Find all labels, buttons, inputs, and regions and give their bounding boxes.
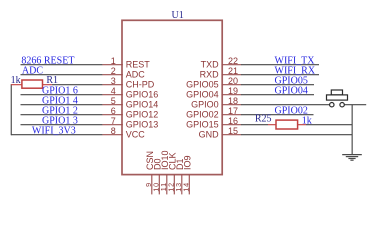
wire net WIFI_3V3: [11, 134, 102, 136]
resistor R25 leads: [268, 124, 306, 126]
pin 3 stub: [102, 84, 123, 86]
svg-text:22: 22: [228, 56, 238, 66]
svg-text:GPIO15: GPIO15: [186, 120, 219, 130]
svg-text:6: 6: [111, 106, 116, 116]
svg-text:18: 18: [228, 96, 238, 106]
pin 1 stub: [102, 64, 123, 66]
wire net GPIO1 3: [21, 124, 103, 126]
pin 14 stub: [188, 175, 190, 195]
pin 4 stub: [102, 94, 123, 96]
svg-text:17: 17: [228, 106, 238, 116]
ground: [342, 155, 362, 161]
svg-text:R1: R1: [46, 75, 58, 86]
svg-text:7: 7: [111, 116, 116, 126]
svg-text:3: 3: [111, 76, 116, 86]
IC U1 body: [122, 20, 222, 174]
wire CH-PD to R1: [52, 84, 103, 86]
wire net ADC: [21, 74, 103, 76]
wire net GPIO1 4: [21, 104, 103, 106]
svg-text:RXD: RXD: [200, 70, 220, 80]
wire GPIO15 to R25: [241, 124, 268, 126]
resistor R1 leads: [11, 84, 52, 86]
wire net WIFI_TX: [241, 64, 319, 66]
svg-text:GPIO16: GPIO16: [126, 90, 159, 100]
pin 20 stub: [222, 84, 242, 86]
push button S1 plunger: [331, 90, 342, 95]
svg-text:GPIO02: GPIO02: [186, 110, 219, 120]
svg-text:CH-PD: CH-PD: [126, 80, 155, 90]
wire R25 to ground line: [306, 124, 352, 126]
svg-text:GPIO05: GPIO05: [186, 80, 219, 90]
pin 21 stub: [222, 74, 242, 76]
svg-text:1k: 1k: [11, 75, 21, 86]
pin 13 stub: [181, 175, 183, 195]
svg-text:ADC: ADC: [126, 70, 146, 80]
svg-text:R25: R25: [255, 113, 272, 124]
push button S1 right contact: [340, 103, 344, 107]
pin 12 stub: [173, 175, 175, 195]
svg-text:REST: REST: [126, 60, 151, 70]
pin 15 stub: [222, 134, 242, 136]
wire button to ground node: [344, 104, 366, 106]
wire ground vertical: [351, 105, 353, 155]
pin 16 stub: [222, 124, 242, 126]
pin 6 stub: [102, 114, 123, 116]
svg-text:GND: GND: [199, 130, 220, 140]
svg-text:14: 14: [182, 182, 191, 192]
svg-text:VCC: VCC: [126, 130, 146, 140]
svg-text:8: 8: [111, 126, 116, 136]
resistor R25: [276, 120, 298, 129]
svg-text:GPIO04: GPIO04: [186, 90, 219, 100]
pin 22 stub: [222, 64, 242, 66]
pin 7 stub: [102, 124, 123, 126]
push button S1 left contact: [330, 103, 334, 107]
svg-text:GPIO14: GPIO14: [126, 100, 159, 110]
wire GND pin to ground line: [241, 134, 352, 136]
svg-text:5: 5: [111, 96, 116, 106]
pin 17 stub: [222, 114, 242, 116]
svg-text:GPIO0: GPIO0: [191, 100, 219, 110]
pin 18 stub: [222, 104, 242, 106]
svg-text:WIFI_3V3: WIFI_3V3: [32, 126, 76, 137]
pin 2 stub: [102, 74, 123, 76]
svg-text:GPIO13: GPIO13: [126, 120, 159, 130]
wire net WIFI_RX: [241, 74, 319, 76]
svg-text:2: 2: [111, 66, 116, 76]
push button S1 body: [327, 95, 348, 100]
svg-text:GPIO12: GPIO12: [126, 110, 159, 120]
svg-text:IO9: IO9: [182, 155, 192, 170]
pin 11 stub: [166, 175, 168, 195]
wire net GPIO04: [241, 94, 314, 96]
svg-text:4: 4: [111, 86, 116, 96]
pin 8 stub: [102, 134, 123, 136]
resistor R1: [22, 80, 43, 88]
wire net GPIO1 6: [21, 94, 103, 96]
pin 10 stub: [158, 175, 160, 195]
wire net GPIO1 2: [21, 114, 103, 116]
wire GPIO0 to button: [241, 104, 330, 106]
svg-text:U1: U1: [172, 10, 184, 21]
svg-text:ADC: ADC: [22, 66, 43, 77]
wire net GPIO05: [241, 84, 314, 86]
svg-text:21: 21: [228, 66, 238, 76]
wire R1 to 3V3 vertical: [10, 84, 12, 135]
svg-text:GPIO04: GPIO04: [275, 86, 308, 97]
pin 19 stub: [222, 94, 242, 96]
svg-text:16: 16: [228, 116, 238, 126]
pin 9 stub: [151, 175, 153, 195]
svg-text:1: 1: [111, 56, 116, 66]
svg-text:19: 19: [228, 86, 238, 96]
svg-text:TXD: TXD: [201, 60, 220, 70]
wire net GPIO02: [241, 114, 314, 116]
svg-text:20: 20: [228, 76, 238, 86]
svg-text:15: 15: [228, 126, 238, 136]
wire net 8266_RESET: [21, 64, 103, 66]
pin 5 stub: [102, 104, 123, 106]
